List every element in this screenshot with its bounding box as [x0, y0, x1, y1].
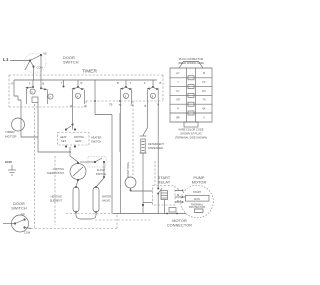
svg-text:BK: BK	[202, 108, 206, 111]
svg-text:PLUG CONNECTOR: PLUG CONNECTOR	[179, 57, 204, 61]
svg-text:PUMP: PUMP	[193, 176, 205, 180]
svg-text:NO: NO	[21, 212, 25, 216]
svg-text:R: R	[177, 199, 179, 203]
svg-text:SWITCH: SWITCH	[63, 61, 79, 65]
svg-text:DETERGENT: DETERGENT	[148, 142, 164, 146]
svg-text:COM: COM	[24, 231, 30, 235]
svg-text:CONNECTOR: CONNECTOR	[167, 224, 192, 228]
svg-text:THERMOSTAT: THERMOSTAT	[47, 171, 65, 175]
svg-text:MOTOR: MOTOR	[5, 135, 17, 139]
svg-text:GND: GND	[5, 160, 13, 164]
svg-text:LIMITING: LIMITING	[53, 167, 64, 171]
svg-text:VALVE: VALVE	[102, 199, 110, 203]
svg-text:SWITCH: SWITCH	[91, 140, 101, 144]
svg-text:R: R	[81, 81, 83, 85]
svg-text:M: M	[177, 193, 179, 197]
svg-text:HEATING: HEATING	[51, 195, 62, 199]
svg-text:BR: BR	[176, 117, 180, 120]
svg-text:TB: TB	[109, 103, 113, 107]
svg-text:B: B	[145, 104, 147, 108]
svg-text:GY: GY	[176, 90, 180, 93]
svg-text:MOTOR: MOTOR	[192, 181, 207, 185]
svg-text:ELEMENT: ELEMENT	[50, 199, 63, 203]
svg-text:L1: L1	[3, 57, 9, 63]
svg-text:SHOWN AT PLUG: SHOWN AT PLUG	[180, 132, 201, 136]
svg-text:H: H	[84, 104, 86, 108]
svg-text:START WDG: START WDG	[126, 162, 130, 177]
svg-text:DRYING: DRYING	[74, 135, 84, 139]
svg-text:TIMER: TIMER	[5, 130, 15, 134]
svg-text:NO: NO	[43, 52, 47, 56]
svg-text:HEAT: HEAT	[75, 139, 82, 143]
svg-text:(TERMINAL SIDE SHOWN): (TERMINAL SIDE SHOWN)	[175, 136, 207, 140]
svg-text:RELAY: RELAY	[158, 181, 171, 185]
svg-text:B: B	[160, 81, 162, 85]
svg-text:B: B	[117, 81, 119, 85]
svg-text:BU: BU	[202, 90, 206, 93]
svg-text:MOTOR: MOTOR	[172, 219, 187, 223]
svg-text:GY: GY	[176, 72, 180, 75]
svg-text:WIRE COLOR CODE: WIRE COLOR CODE	[179, 128, 204, 132]
svg-text:R: R	[177, 108, 179, 111]
svg-text:OR: OR	[176, 99, 180, 102]
svg-text:PROTECTOR: PROTECTOR	[189, 205, 205, 209]
svg-text:DISPENSER: DISPENSER	[148, 146, 163, 150]
svg-text:R: R	[12, 82, 14, 86]
svg-text:PK: PK	[202, 81, 206, 84]
svg-text:SWITCH: SWITCH	[11, 207, 27, 211]
svg-text:TIMER: TIMER	[82, 69, 97, 75]
svg-text:DOOR: DOOR	[63, 56, 75, 60]
svg-text:COM: COM	[37, 66, 43, 70]
svg-text:SWITCH: SWITCH	[96, 172, 106, 176]
svg-text:SET: SET	[61, 139, 66, 143]
svg-text:START: START	[193, 190, 202, 194]
svg-text:B: B	[43, 82, 45, 86]
svg-text:HEAT: HEAT	[60, 135, 67, 139]
svg-text:TN: TN	[202, 99, 205, 102]
svg-text:HEATER: HEATER	[91, 136, 101, 140]
svg-text:RUN: RUN	[194, 197, 200, 201]
svg-text:2A: 2A	[131, 103, 134, 107]
svg-text:DOOR: DOOR	[13, 202, 25, 206]
svg-text:WATER: WATER	[102, 195, 111, 199]
svg-text:START: START	[158, 176, 171, 180]
